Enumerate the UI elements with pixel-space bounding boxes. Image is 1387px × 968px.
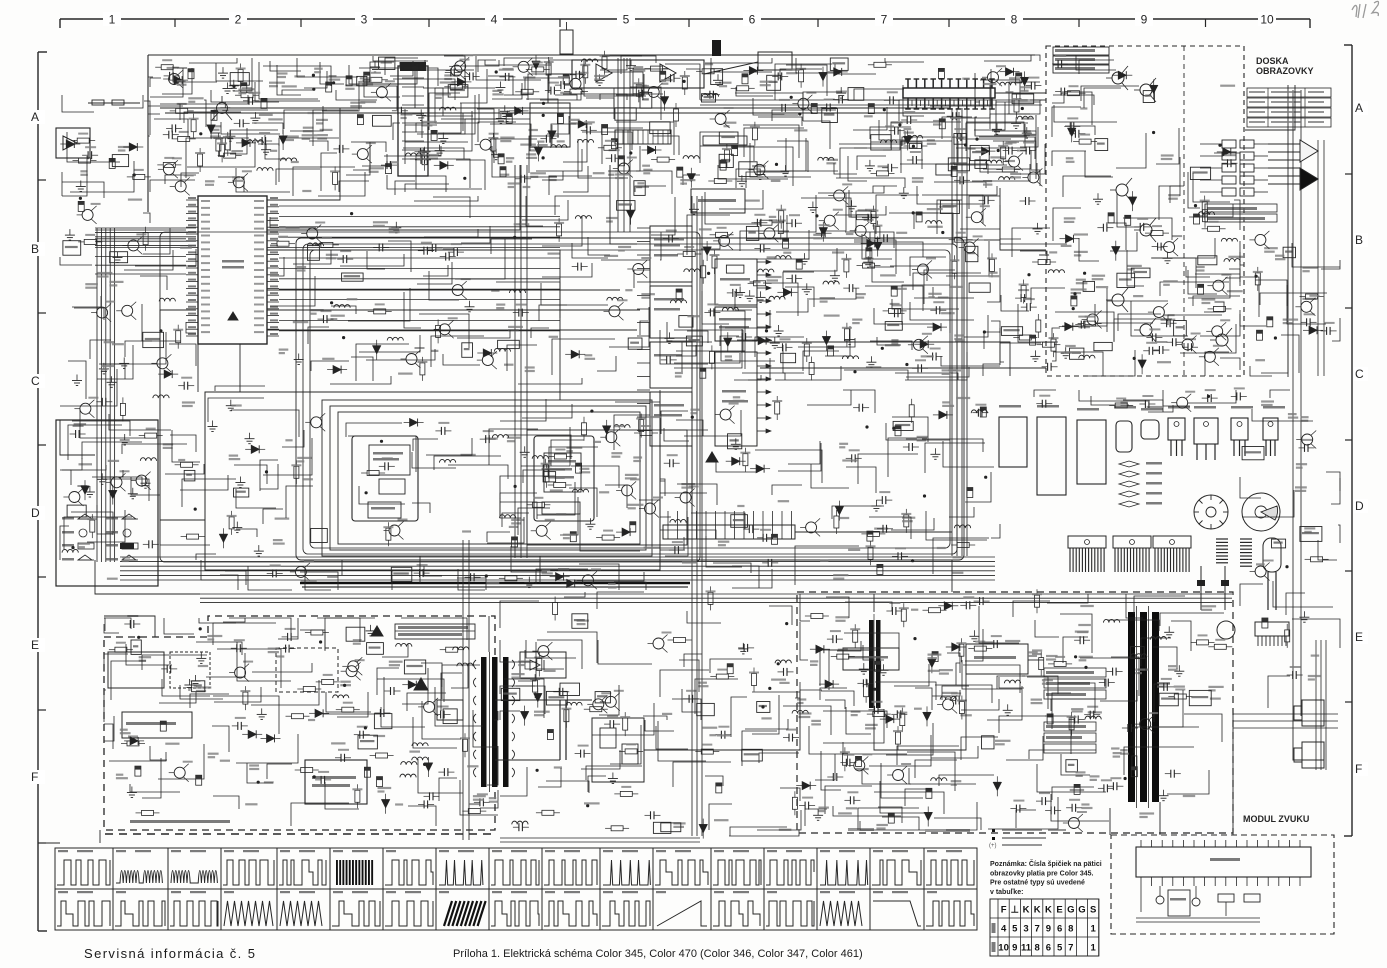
wire bbox=[1052, 693, 1071, 729]
value label bbox=[593, 172, 605, 174]
wire bbox=[80, 409, 146, 438]
waveform oscillogram 15 bbox=[817, 848, 870, 889]
svg-text:5: 5 bbox=[1012, 924, 1018, 935]
value label bbox=[444, 74, 460, 76]
resistor R154 bbox=[187, 534, 199, 539]
value label bbox=[462, 530, 471, 532]
wire bbox=[90, 340, 111, 359]
capacitor C466 bbox=[669, 459, 671, 467]
ground bbox=[693, 203, 695, 209]
wire bbox=[1193, 173, 1230, 202]
value label bbox=[210, 132, 220, 134]
value label bbox=[1261, 400, 1274, 402]
wire bbox=[1079, 60, 1114, 74]
wire bbox=[1134, 727, 1199, 753]
value label bbox=[248, 88, 255, 90]
resistor R188 bbox=[620, 791, 632, 796]
resistor R124 bbox=[84, 239, 96, 244]
inductor L830 bbox=[453, 647, 469, 650]
wire bbox=[130, 784, 180, 792]
wire mid vertical bus bbox=[691, 196, 693, 836]
wire bbox=[759, 753, 799, 763]
resistor R153 bbox=[294, 466, 299, 478]
wire bbox=[364, 74, 400, 97]
inductor L824 bbox=[954, 525, 970, 528]
transistor V614 bbox=[128, 240, 139, 251]
wire bbox=[1270, 390, 1290, 398]
resistor R222 bbox=[386, 528, 391, 540]
value label bbox=[398, 373, 413, 375]
svg-text:MODUL ZVUKU: MODUL ZVUKU bbox=[1243, 814, 1309, 824]
svg-text:1: 1 bbox=[1091, 924, 1097, 935]
diode D741 bbox=[521, 712, 529, 720]
wire bbox=[1116, 133, 1146, 168]
wire bbox=[581, 750, 620, 769]
diode D707 bbox=[661, 97, 669, 105]
diode polarity legend bbox=[1119, 461, 1139, 467]
capacitor C531 bbox=[440, 427, 442, 435]
wire bbox=[564, 592, 585, 597]
node junction bbox=[873, 688, 876, 691]
resistor R119 bbox=[1001, 147, 1006, 159]
resistor R166 bbox=[446, 647, 458, 652]
mains filter block bbox=[122, 712, 192, 738]
value label bbox=[813, 234, 825, 236]
value label bbox=[687, 315, 700, 317]
capacitor C545 bbox=[450, 68, 452, 76]
capacitor C501 bbox=[939, 119, 945, 129]
component block856 bbox=[848, 88, 864, 101]
ground bbox=[630, 60, 632, 66]
resistor R228 bbox=[220, 144, 225, 156]
value label bbox=[511, 519, 524, 521]
wire lower horizontal bus bbox=[200, 593, 1232, 595]
resistor R104 bbox=[241, 93, 253, 98]
wire bbox=[886, 723, 933, 755]
capacitor C425 bbox=[101, 398, 103, 406]
wire bbox=[1149, 690, 1183, 727]
inductor L822 bbox=[775, 256, 791, 259]
wire bbox=[1180, 324, 1236, 353]
inductor L843 bbox=[880, 140, 896, 143]
wire bbox=[263, 66, 331, 86]
wire bbox=[1205, 352, 1229, 376]
capacitor C451 bbox=[1102, 224, 1104, 232]
diode D728 bbox=[1066, 235, 1074, 243]
resistor R114 bbox=[682, 77, 687, 89]
wire bbox=[270, 276, 315, 306]
diode D723 bbox=[724, 338, 732, 346]
value label bbox=[347, 298, 358, 300]
package label 2 bbox=[1037, 405, 1059, 408]
capacitor C489 bbox=[955, 697, 957, 705]
resistor R146 bbox=[1019, 335, 1031, 340]
wire bbox=[984, 240, 1000, 249]
resistor R102 bbox=[198, 154, 203, 166]
capacitor C509 bbox=[866, 248, 872, 258]
wire bbox=[416, 123, 463, 132]
wire bbox=[874, 792, 944, 814]
wire bbox=[68, 361, 86, 399]
node junction bbox=[629, 151, 632, 154]
wire bbox=[429, 93, 460, 130]
wire bbox=[526, 196, 543, 226]
capacitor C519 bbox=[1025, 147, 1027, 155]
wire bbox=[630, 87, 661, 120]
wire right margin bus bbox=[1317, 140, 1319, 376]
resistor R112 bbox=[636, 84, 641, 96]
wire bbox=[870, 127, 911, 139]
wire bbox=[547, 632, 597, 663]
wire bbox=[331, 306, 356, 314]
wire bbox=[270, 217, 316, 228]
value label bbox=[213, 125, 222, 127]
value label bbox=[937, 547, 946, 549]
wire bbox=[143, 213, 150, 223]
diode D756 bbox=[924, 813, 932, 821]
capacitor C487 bbox=[1127, 724, 1129, 732]
ground bbox=[870, 356, 872, 362]
ground bbox=[374, 61, 376, 67]
wire bbox=[873, 186, 897, 193]
node junction bbox=[1084, 666, 1087, 669]
component block922 bbox=[830, 58, 848, 70]
inductor L854 bbox=[572, 489, 588, 492]
capacitor C509 bbox=[1144, 400, 1146, 408]
value label bbox=[839, 443, 848, 445]
component block907 bbox=[1283, 247, 1295, 258]
resistor R158 bbox=[904, 515, 909, 527]
waveform oscillogram 1 bbox=[55, 848, 113, 889]
wire bbox=[783, 706, 831, 735]
slider pot 2 bbox=[1224, 566, 1226, 610]
component block870 bbox=[617, 201, 635, 211]
resistor R193 bbox=[1197, 640, 1209, 645]
capacitor C455 bbox=[109, 158, 115, 168]
transistor V82 bbox=[1140, 84, 1152, 96]
value label bbox=[1168, 194, 1180, 196]
node junction bbox=[1072, 307, 1075, 310]
ground bbox=[668, 332, 670, 338]
value label bbox=[733, 396, 740, 398]
transistor V636 bbox=[424, 701, 435, 712]
wire bbox=[359, 335, 420, 352]
wire bbox=[104, 724, 113, 749]
value label bbox=[842, 459, 857, 461]
value label bbox=[314, 68, 323, 70]
delay line DL101 body bbox=[903, 88, 995, 98]
wire bbox=[215, 386, 265, 391]
node junction bbox=[364, 726, 367, 729]
node junction bbox=[997, 149, 1000, 152]
resistor R160 bbox=[909, 405, 914, 417]
wire heavy black line bbox=[300, 582, 690, 585]
value label bbox=[1127, 265, 1141, 267]
diode D716 bbox=[164, 370, 172, 378]
wire bbox=[500, 640, 537, 662]
wire bbox=[1260, 293, 1327, 305]
value label bbox=[856, 293, 866, 295]
wire left vertical bus bbox=[96, 228, 98, 562]
resistor R148 bbox=[1208, 226, 1220, 231]
wire bbox=[843, 742, 907, 754]
node junction bbox=[485, 574, 488, 577]
wire bbox=[542, 263, 592, 277]
capacitor C503 bbox=[727, 664, 733, 674]
wire bbox=[284, 110, 327, 129]
sub-module U402 box2 bbox=[542, 502, 580, 514]
capacitor C505 bbox=[188, 69, 194, 79]
value label bbox=[308, 719, 315, 721]
label strip under CRT bbox=[1205, 204, 1277, 212]
CRT gun arrow lower bbox=[1300, 168, 1318, 190]
ground bbox=[103, 363, 105, 369]
node junction bbox=[137, 636, 140, 639]
wire bbox=[213, 796, 239, 809]
resistor R202 bbox=[1255, 273, 1260, 285]
wire bbox=[293, 250, 331, 264]
component block925 bbox=[560, 683, 580, 695]
resistor R191 bbox=[1035, 595, 1040, 607]
capacitor C453 bbox=[1166, 319, 1168, 327]
wire bbox=[1156, 128, 1179, 164]
wire bbox=[126, 644, 172, 665]
wire bbox=[160, 520, 210, 545]
resistor R204 bbox=[1002, 167, 1014, 172]
inductor L834 bbox=[566, 702, 582, 705]
ground bbox=[1097, 193, 1099, 199]
degauss coil box bbox=[276, 648, 338, 692]
wire bbox=[915, 688, 932, 710]
value label bbox=[846, 807, 857, 809]
wire bbox=[807, 390, 851, 405]
value label bbox=[269, 82, 285, 84]
value label bbox=[702, 727, 717, 729]
inductor L817 bbox=[387, 337, 403, 340]
transistor Q101 bbox=[217, 103, 228, 114]
wire bbox=[525, 78, 570, 90]
value label bbox=[506, 157, 514, 159]
resistor R115 bbox=[702, 69, 714, 74]
wire bbox=[555, 196, 610, 215]
ground bbox=[1178, 665, 1180, 671]
transistor V626 bbox=[918, 264, 929, 275]
wire bbox=[359, 486, 405, 504]
wire bbox=[1065, 126, 1095, 135]
node junction bbox=[1207, 395, 1210, 398]
wire bus bbox=[160, 107, 950, 109]
wire bbox=[1281, 335, 1299, 373]
component block904 bbox=[982, 736, 995, 749]
capacitor C541 bbox=[743, 644, 745, 652]
wire bbox=[150, 68, 183, 97]
resistor R171 bbox=[243, 692, 248, 704]
inductor L861 bbox=[758, 269, 774, 272]
wire bbox=[800, 594, 810, 621]
component block890 bbox=[192, 681, 205, 692]
inductor L815 bbox=[494, 348, 510, 351]
svg-text:A: A bbox=[1355, 101, 1363, 115]
svg-text:C: C bbox=[1355, 367, 1364, 381]
value label bbox=[641, 293, 655, 295]
diode D758 bbox=[1065, 323, 1073, 331]
node junction bbox=[798, 112, 801, 115]
wire bbox=[104, 654, 128, 672]
ground bbox=[188, 679, 190, 685]
waveform oscillogram 33 bbox=[870, 889, 924, 930]
value label bbox=[953, 556, 963, 558]
wire bbox=[955, 186, 997, 195]
value label bbox=[1074, 251, 1088, 253]
capacitor C471 bbox=[440, 711, 442, 719]
waveform oscillogram 16 bbox=[870, 848, 924, 889]
ground bbox=[227, 83, 229, 89]
CRT gun arrow upper bbox=[1300, 140, 1318, 162]
value label bbox=[682, 561, 697, 563]
sub-board frame 4 bbox=[338, 412, 640, 544]
value label bbox=[523, 76, 535, 78]
sub-module U401 IC bbox=[369, 445, 410, 475]
connector outline K2 bbox=[1037, 417, 1066, 495]
capacitor C533 bbox=[611, 154, 613, 162]
teletext IC U901 bbox=[1136, 847, 1311, 877]
capacitor C510 bbox=[700, 368, 706, 378]
value label bbox=[1275, 255, 1284, 257]
component block914 bbox=[1070, 348, 1084, 359]
value label bbox=[942, 692, 958, 694]
delay line DL101 pins bbox=[907, 79, 909, 88]
value label bbox=[952, 572, 963, 574]
wire bbox=[877, 337, 901, 345]
capacitor C499 bbox=[630, 522, 636, 532]
wire bbox=[68, 425, 122, 460]
value label bbox=[838, 812, 852, 814]
waveform oscillogram 11 bbox=[600, 848, 653, 889]
node junction bbox=[536, 769, 539, 772]
wire bbox=[563, 166, 588, 192]
wire bbox=[736, 169, 760, 188]
capacitor C472 bbox=[479, 798, 481, 806]
svg-text:G: G bbox=[1078, 905, 1085, 916]
component block873 bbox=[342, 273, 364, 281]
value label bbox=[509, 526, 519, 528]
legend bullet lines bbox=[992, 829, 995, 832]
value label bbox=[824, 315, 840, 317]
diode D702 bbox=[242, 139, 250, 147]
wire bbox=[82, 442, 142, 459]
value label bbox=[608, 170, 617, 172]
capacitor C508 bbox=[875, 661, 881, 671]
transistor V652 bbox=[570, 78, 581, 89]
wire bbox=[67, 132, 120, 162]
wire bbox=[1148, 405, 1173, 412]
diode D729 bbox=[1129, 197, 1137, 205]
value label bbox=[112, 343, 124, 345]
resistor R156 bbox=[229, 517, 234, 529]
wire bbox=[405, 125, 437, 164]
capacitor C539 bbox=[959, 176, 961, 184]
wire bbox=[539, 305, 567, 321]
svg-text:6: 6 bbox=[1046, 943, 1051, 954]
node junction bbox=[1027, 273, 1030, 276]
svg-text:F: F bbox=[1355, 762, 1362, 776]
wire bbox=[1152, 258, 1196, 288]
wire bbox=[109, 752, 166, 761]
diode D765 bbox=[578, 120, 586, 128]
wire bbox=[1193, 296, 1240, 306]
wire bbox=[526, 99, 558, 138]
diode D733 bbox=[251, 445, 259, 453]
wire bbox=[687, 611, 721, 623]
value label bbox=[771, 180, 781, 182]
wire bbox=[263, 509, 283, 524]
audio label strips bbox=[1044, 668, 1106, 677]
wire bbox=[1171, 621, 1191, 651]
resistor R242 bbox=[875, 227, 880, 239]
wire bbox=[340, 254, 404, 266]
wire bbox=[1052, 94, 1064, 103]
component block876 bbox=[746, 226, 758, 240]
transistor V663 bbox=[538, 646, 549, 657]
capacitor C443 bbox=[984, 196, 986, 204]
capacitor C474 bbox=[236, 644, 238, 652]
capacitor C479 bbox=[877, 564, 883, 574]
wire bbox=[393, 123, 400, 140]
capacitor C457 bbox=[498, 154, 504, 164]
inductor L829 bbox=[401, 762, 417, 765]
inductor L807 bbox=[818, 157, 834, 160]
wire bbox=[667, 322, 696, 341]
component block888 bbox=[728, 434, 742, 449]
value label bbox=[633, 456, 642, 458]
transistor V653 bbox=[943, 699, 954, 710]
wire bbox=[252, 123, 283, 134]
node junction bbox=[983, 330, 986, 333]
resistor R109 bbox=[79, 158, 91, 163]
package label 3 bbox=[1077, 408, 1099, 411]
value label bbox=[874, 528, 888, 530]
resistor R129 bbox=[557, 224, 562, 236]
wire bbox=[845, 232, 894, 248]
capacitor C481 bbox=[609, 720, 611, 728]
wire bbox=[320, 62, 344, 84]
focus connector comb bbox=[663, 525, 795, 539]
inductor L820 bbox=[823, 281, 839, 284]
wire bbox=[542, 216, 582, 246]
capacitor C550 bbox=[894, 309, 896, 317]
wire bbox=[60, 458, 82, 470]
value label bbox=[1071, 708, 1083, 710]
capacitor C468 bbox=[951, 166, 957, 176]
value label bbox=[526, 153, 536, 155]
ground bbox=[528, 577, 530, 583]
value label bbox=[983, 180, 992, 182]
wire bbox=[382, 644, 408, 657]
wire bbox=[366, 349, 435, 360]
value label bbox=[560, 92, 572, 94]
wire bbox=[424, 566, 442, 576]
wire bbox=[213, 696, 279, 734]
wire bbox=[836, 206, 886, 215]
wire bbox=[441, 109, 499, 119]
wire bbox=[1292, 243, 1340, 267]
value label bbox=[1147, 406, 1163, 408]
value label bbox=[984, 641, 993, 643]
sub-board frame outer bbox=[205, 392, 660, 570]
wire bbox=[665, 517, 688, 556]
node junction bbox=[312, 74, 315, 77]
diode D711 bbox=[515, 107, 523, 115]
